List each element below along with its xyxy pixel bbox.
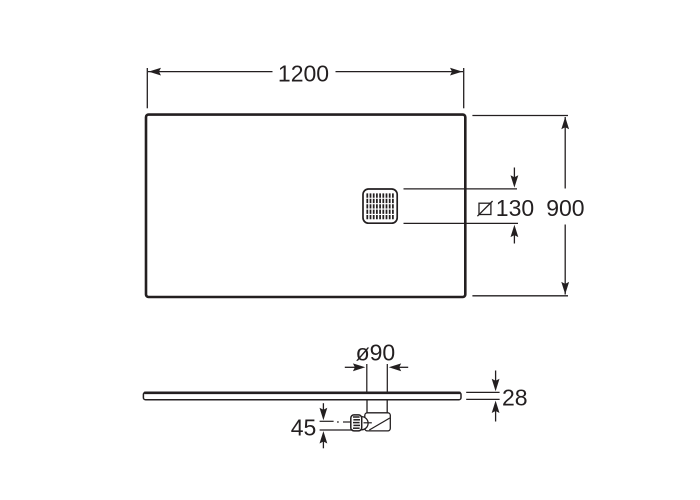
svg-text:45: 45 [291,415,317,441]
dimension 45: lower arrow (pointing up) [322,439,324,448]
siphon elbow diagonal [369,418,390,430]
dimension o90: left extension line [366,364,368,392]
dimension 28: top extension line [466,391,499,393]
dimension 1200: left arrowhead [149,68,161,76]
tray profile slab (side view) [143,392,461,400]
dimension 45: top line [320,420,334,422]
siphon outlet dome [362,417,369,430]
dimension 900: bottom extension line [472,295,568,297]
dimension 900: dimension line [564,117,566,189]
dimension 45: upper arrow (pointing down) [322,403,324,412]
drain dimension 130: top leader line [404,188,518,190]
drain grate bars [367,193,393,219]
drain dimension 130: upper arrow (pointing down) [513,168,515,181]
dimension 28: lower arrow (pointing up) [495,409,497,422]
svg-text:130: 130 [496,195,534,221]
dimension o90: right extension line [386,364,388,392]
drain pipe (side view) [366,400,368,413]
outlet centreline (dash-dot) [337,421,339,423]
dimension o90: right arrow (pointing left) [398,366,408,368]
siphon coupling nut [351,415,362,431]
tray profile slab: thick top edge [144,392,460,395]
svg-text:1200: 1200 [278,61,329,87]
dimension 900: top arrowhead [561,117,569,129]
dimension 1200: dimension line [148,71,273,73]
outlet centreline through dome [364,422,372,424]
dimension 28: bottom extension line [466,398,499,400]
svg-text:ø90: ø90 [356,340,396,366]
tray outline (top view) [146,115,465,297]
dimension 1200: right extension line [463,68,465,108]
dimension 1200: right arrowhead [450,68,462,76]
siphon coupling ribs [353,417,360,428]
dimension o90: left arrow (pointing right) [345,366,356,368]
svg-text:900: 900 [546,195,584,221]
drain dimension 130: bottom leader line [404,222,519,224]
svg-text:28: 28 [502,384,528,410]
dimension 28: upper arrow (pointing down) [495,371,497,384]
dimension 900: top extension line [472,115,568,117]
dimension 1200: left extension line [146,68,148,108]
dimension 45: bottom line [320,429,353,431]
drain dimension 130: lower arrow (pointing up) [513,232,515,244]
siphon elbow body [365,413,391,431]
drain dimension 130: square-section symbol [479,203,491,214]
drain grate outline [363,189,397,223]
dimension 900: bottom arrowhead [561,282,569,294]
